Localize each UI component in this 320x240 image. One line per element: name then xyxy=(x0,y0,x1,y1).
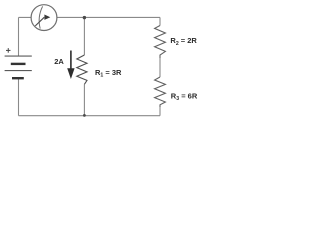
svg-text:2A: 2A xyxy=(54,57,64,66)
battery B1 xyxy=(5,56,32,78)
wire top (node between battery +, ammeter, R1 top, R2 top) xyxy=(19,16,161,18)
wire between R2 and R3 xyxy=(159,58,161,77)
battery plus sign label xyxy=(6,48,11,53)
wire left vertical from top corner to battery top plate xyxy=(18,17,20,56)
wire right vertical top lead to R2 xyxy=(159,17,161,25)
wire left vertical from battery bottom plate to bottom corner xyxy=(18,78,20,116)
ammeter scale arc xyxy=(39,6,42,28)
wire right vertical bottom lead from R3 xyxy=(159,107,161,116)
ammeter needle xyxy=(35,17,44,26)
node junction dot bottom (R1 bottom / bottom wire) xyxy=(83,114,86,117)
node junction dot top (R1 top / top wire) xyxy=(83,16,86,19)
battery plate short thick xyxy=(11,63,26,65)
wire bottom (node between battery -, R1 bottom, R3 bottom) xyxy=(19,115,161,117)
battery plate short thick bottom (-) xyxy=(12,77,24,79)
resistor R1 zigzag xyxy=(77,55,87,84)
svg-text:R1 = 3R: R1 = 3R xyxy=(95,68,122,79)
resistor R3 zigzag xyxy=(155,77,166,107)
current arrow head xyxy=(67,68,74,79)
current arrow 2A (down) xyxy=(70,51,72,73)
battery plate long top (+) xyxy=(5,55,32,57)
ammeter M1 body circle xyxy=(31,5,57,31)
battery plate long xyxy=(5,70,32,72)
ammeter needle arrowhead xyxy=(44,15,50,20)
resistor R2 zigzag xyxy=(155,26,166,59)
wire middle branch bottom lead from R1 xyxy=(83,84,85,115)
wire middle branch top lead to R1 xyxy=(83,17,85,55)
